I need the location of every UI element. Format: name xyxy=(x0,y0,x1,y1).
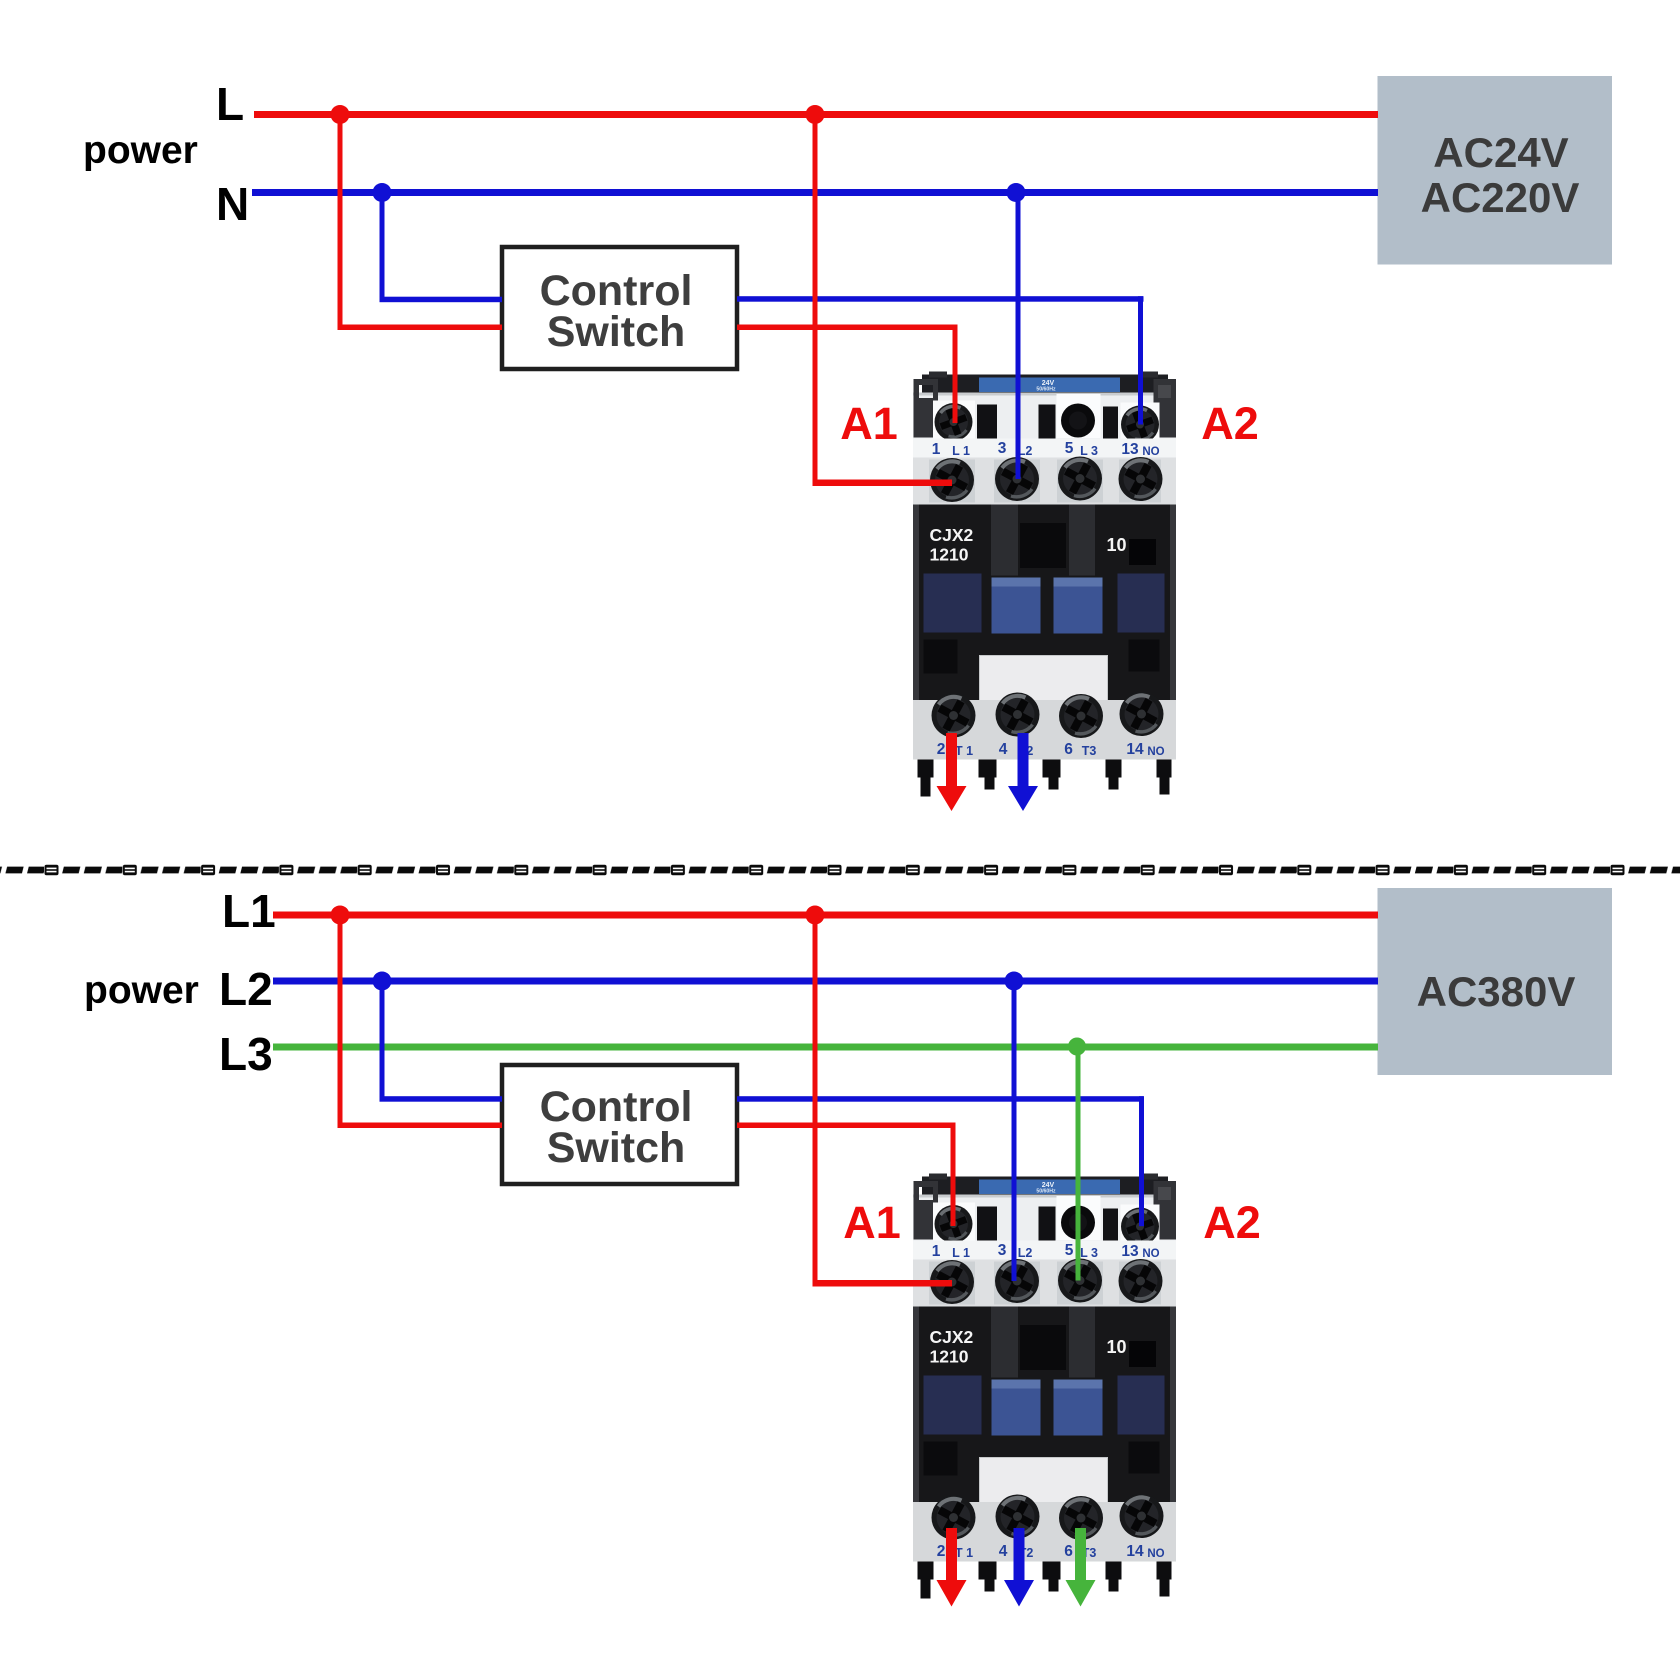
svg-text:L: L xyxy=(216,78,244,130)
svg-text:AC24V: AC24V xyxy=(1433,129,1568,176)
output arrow blue (upper) xyxy=(1008,733,1038,811)
node: L1-power tap xyxy=(806,906,825,925)
node: L2-control tap xyxy=(373,972,392,991)
wire: N power feed down to terminal 3/L2 xyxy=(1016,192,1021,479)
svg-text:AC380V: AC380V xyxy=(1417,968,1576,1015)
svg-text:power: power xyxy=(84,969,199,1012)
output arrow red (upper) xyxy=(937,733,967,811)
wire: L1 power feed down to terminal 1/L1 xyxy=(813,915,818,1284)
AC24V/AC220V source box xyxy=(1378,76,1613,265)
svg-text:Switch: Switch xyxy=(547,308,686,356)
wire L1 (red bus) xyxy=(273,912,1378,919)
svg-text:AC220V: AC220V xyxy=(1421,174,1580,221)
svg-text:L2: L2 xyxy=(219,963,273,1015)
wire: L3 power feed down to terminal 5/L3 xyxy=(1076,1047,1081,1281)
control switch box (upper) xyxy=(502,247,737,369)
output arrow green (lower) xyxy=(1066,1528,1096,1607)
AC380V source box xyxy=(1378,888,1613,1075)
output arrow red (lower) xyxy=(937,1528,967,1607)
wire: L2 tap down to control switch xyxy=(380,981,385,1101)
wire: N tap down to control switch xyxy=(380,192,385,302)
node: L-power tap xyxy=(806,105,825,124)
wire: control switch blue output to A2 xyxy=(737,296,1144,302)
svg-text:A1: A1 xyxy=(840,398,898,449)
svg-text:L1: L1 xyxy=(222,885,276,937)
divider dashed line xyxy=(0,864,1680,876)
node: N-power tap xyxy=(1007,183,1026,202)
node: L3-power tap xyxy=(1068,1038,1086,1056)
svg-text:A1: A1 xyxy=(843,1197,901,1248)
control switch box (lower) xyxy=(502,1065,737,1184)
wire: control switch red output to A1 xyxy=(737,325,958,331)
node: L2-power tap xyxy=(1005,972,1024,991)
wire: L tap down to control switch xyxy=(338,114,343,330)
node: L1-control tap xyxy=(331,906,350,925)
wire L2 (blue bus) xyxy=(273,978,1378,985)
wire: L1 tap down to control switch xyxy=(338,915,343,1128)
svg-text:A2: A2 xyxy=(1203,1197,1261,1248)
wire: L power feed down to terminal 1/L1 xyxy=(813,114,818,486)
svg-text:A2: A2 xyxy=(1201,398,1259,449)
wire: control switch red output to A1 (lower) xyxy=(737,1123,956,1129)
contactor K1 (upper) xyxy=(913,372,1176,797)
wire N (blue bus) xyxy=(252,189,1378,196)
node: N-control tap xyxy=(373,183,392,202)
wire L3 (green bus) xyxy=(273,1044,1378,1051)
wire L (red bus) xyxy=(254,111,1378,118)
wire: L2 power feed down to terminal 3/L2 xyxy=(1012,981,1017,1281)
wire: control switch blue output to A2 (lower) xyxy=(737,1096,1144,1102)
svg-text:power: power xyxy=(83,129,198,172)
contactor K2 (lower) xyxy=(913,1174,1176,1599)
svg-text:Switch: Switch xyxy=(547,1124,686,1172)
node: L-control tap xyxy=(331,105,350,124)
svg-text:N: N xyxy=(216,178,249,230)
output arrow blue (lower) xyxy=(1004,1528,1034,1607)
svg-text:L3: L3 xyxy=(219,1028,273,1080)
